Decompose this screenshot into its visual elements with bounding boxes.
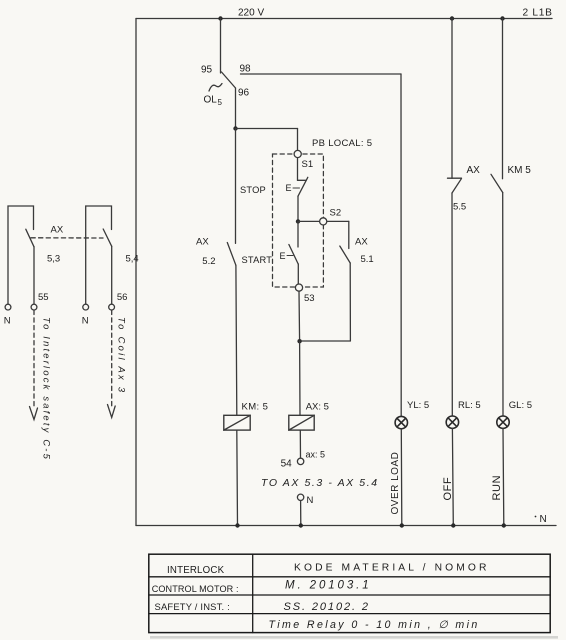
- wire node to S2 and AX5.1 branch: [298, 220, 349, 222]
- svg-text:54: 54: [281, 459, 293, 470]
- svg-text:96: 96: [238, 88, 250, 99]
- wire 96 node to S1: [236, 128, 298, 130]
- overload relay OL5 trip symbol: [209, 84, 222, 92]
- svg-text:53: 53: [304, 293, 315, 304]
- terminal N left2: [83, 304, 89, 310]
- wire L1 top rail 220V: [136, 18, 552, 20]
- svg-text:KM 5: KM 5: [508, 165, 532, 176]
- wire RL branch from top rail: [451, 19, 453, 179]
- pushbutton START NO contact: [297, 221, 299, 247]
- svg-text:SS. 20102. 2: SS. 20102. 2: [284, 601, 370, 613]
- svg-text:5,4: 5,4: [126, 253, 139, 264]
- junction top rail OL branch: [218, 16, 222, 20]
- auxiliary contact AX 5,3 branch bracket: [8, 206, 34, 304]
- title block table: [149, 554, 550, 632]
- svg-text:N: N: [307, 495, 314, 506]
- svg-text:N: N: [4, 316, 11, 327]
- svg-text:95: 95: [201, 65, 213, 76]
- svg-text:2 L1B: 2 L1B: [523, 8, 553, 19]
- svg-text:5.5: 5.5: [453, 202, 466, 213]
- terminal S1: [294, 150, 301, 157]
- svg-text:KM: 5: KM: 5: [242, 402, 269, 413]
- wire AX5,4 to terminal 56: [111, 246, 113, 304]
- svg-text:AX: AX: [467, 165, 481, 176]
- pushbutton STOP NC contact: [297, 158, 299, 181]
- relay coil AX:5: [299, 341, 301, 415]
- svg-text:AX: 5: AX: 5: [306, 402, 329, 413]
- wire N bottom rail: [136, 525, 556, 527]
- arrow down interlock: [30, 407, 38, 420]
- auxiliary contact AX 5,4 branch bracket: [86, 206, 112, 304]
- svg-text:YL: 5: YL: 5: [407, 400, 429, 411]
- wire 98 vertical down to YL lamp: [400, 74, 402, 416]
- auxiliary contact AX 5.5 NC: [448, 177, 462, 179]
- terminal S3: [295, 284, 302, 291]
- terminal 55: [31, 304, 37, 310]
- wire 98 horizontal to YL branch: [241, 73, 402, 75]
- contact AX 5,4 arm: [103, 229, 112, 246]
- wire OL5 terminal 95: [220, 19, 222, 74]
- svg-text:S1: S1: [302, 159, 314, 170]
- wire S3 down to junction: [298, 291, 301, 341]
- svg-text:To Coil Ax 3: To Coil Ax 3: [117, 317, 128, 394]
- wire N terminal to rail: [300, 501, 302, 526]
- svg-text:5.1: 5.1: [361, 254, 374, 265]
- junction node below S3: [297, 339, 301, 343]
- svg-text:M. 20103.1: M. 20103.1: [285, 580, 372, 592]
- svg-text:E: E: [286, 183, 292, 193]
- svg-text:220 V: 220 V: [238, 8, 264, 19]
- svg-text:STOP: STOP: [240, 185, 266, 195]
- svg-text:START: START: [242, 255, 273, 265]
- terminal N mid: [297, 494, 303, 500]
- svg-text:N: N: [82, 316, 89, 327]
- svg-text:OFF: OFF: [442, 477, 454, 501]
- svg-text:98: 98: [240, 64, 252, 75]
- contact AX 5,3 arm: [26, 229, 34, 247]
- overload relay contact OL5 arm 95-96: [222, 72, 236, 88]
- wire AX5,3 to terminal 55: [33, 247, 35, 304]
- lamp YL:5: [395, 416, 407, 428]
- mechanical link AX dashed: [31, 237, 103, 239]
- svg-text:OVER LOAD: OVER LOAD: [390, 452, 401, 515]
- lamp GL:5: [497, 416, 509, 428]
- auxiliary contact AX 5.2 NO: [235, 129, 237, 244]
- svg-text:5.2: 5.2: [202, 256, 215, 267]
- wire RL lamp to N rail: [451, 428, 454, 525]
- svg-text:OL: OL: [204, 95, 218, 106]
- junction top rail GL branch: [500, 16, 504, 20]
- wire GL lamp to N rail: [502, 428, 505, 525]
- svg-text:E: E: [280, 251, 286, 261]
- node N label right: [535, 516, 537, 518]
- svg-text:ax: 5: ax: 5: [306, 450, 326, 460]
- svg-text:AX: AX: [51, 225, 64, 236]
- terminal 56: [109, 304, 115, 310]
- svg-text:RL: 5: RL: 5: [458, 400, 481, 411]
- wire OL5 terminal 96 down: [235, 88, 237, 129]
- contactor contact KM5 NO: [491, 174, 503, 192]
- svg-text:To Interlock safety C-5: To Interlock safety C-5: [42, 317, 53, 461]
- terminal 54 ax:5: [297, 458, 303, 464]
- dashed lead to coil AX3: [111, 310, 113, 406]
- contactor coil KM:5: [224, 415, 250, 430]
- auxiliary contact AX 5.1 NO: [348, 221, 350, 248]
- scan shadow under table: [150, 636, 558, 639]
- wire down to S1 terminal: [297, 129, 299, 151]
- terminal N left1: [5, 304, 11, 310]
- svg-text:N: N: [540, 514, 547, 525]
- wire left vertical rail: [135, 19, 137, 526]
- svg-text:AX: AX: [196, 237, 209, 248]
- dashed lead to interlock: [33, 310, 35, 407]
- terminal S2: [320, 218, 327, 225]
- wire YL lamp to N rail: [400, 429, 403, 526]
- svg-text:TO AX 5.3 - AX 5.4: TO AX 5.3 - AX 5.4: [261, 477, 379, 489]
- PB LOCAL 5 dashed enclosure: [273, 154, 324, 287]
- svg-text:INTERLOCK: INTERLOCK: [167, 565, 225, 576]
- svg-text:5,3: 5,3: [47, 254, 60, 265]
- svg-text:SAFETY / INST. :: SAFETY / INST. :: [155, 601, 230, 612]
- svg-text:AX: AX: [355, 237, 368, 248]
- svg-text:55: 55: [38, 292, 49, 303]
- svg-text:RUN: RUN: [491, 475, 503, 501]
- svg-text:PB LOCAL: 5: PB LOCAL: 5: [312, 138, 372, 149]
- wire AX coil to terminal 54: [299, 430, 301, 458]
- arrow down coil: [108, 405, 116, 418]
- junction node at 96 to PB LOCAL: [233, 126, 237, 130]
- svg-text:5: 5: [218, 98, 223, 107]
- svg-text:CONTROL MOTOR :: CONTROL MOTOR :: [152, 584, 239, 594]
- lamp RL:5: [446, 416, 458, 428]
- junction node below STOP: [296, 219, 300, 223]
- svg-text:GL: 5: GL: 5: [509, 400, 532, 411]
- svg-text:56: 56: [117, 292, 128, 303]
- svg-text:KODE MATERIAL / NOMOR: KODE MATERIAL / NOMOR: [294, 563, 490, 574]
- wire KM coil to N rail: [236, 430, 239, 525]
- wire GL branch from top rail: [502, 19, 504, 179]
- svg-text:S2: S2: [330, 208, 342, 219]
- junction top rail RL branch: [450, 16, 454, 20]
- svg-text:Time Relay 0 - 10 min , ∅ min: Time Relay 0 - 10 min , ∅ min: [269, 619, 480, 631]
- wire AX5.1 to junction: [300, 340, 351, 342]
